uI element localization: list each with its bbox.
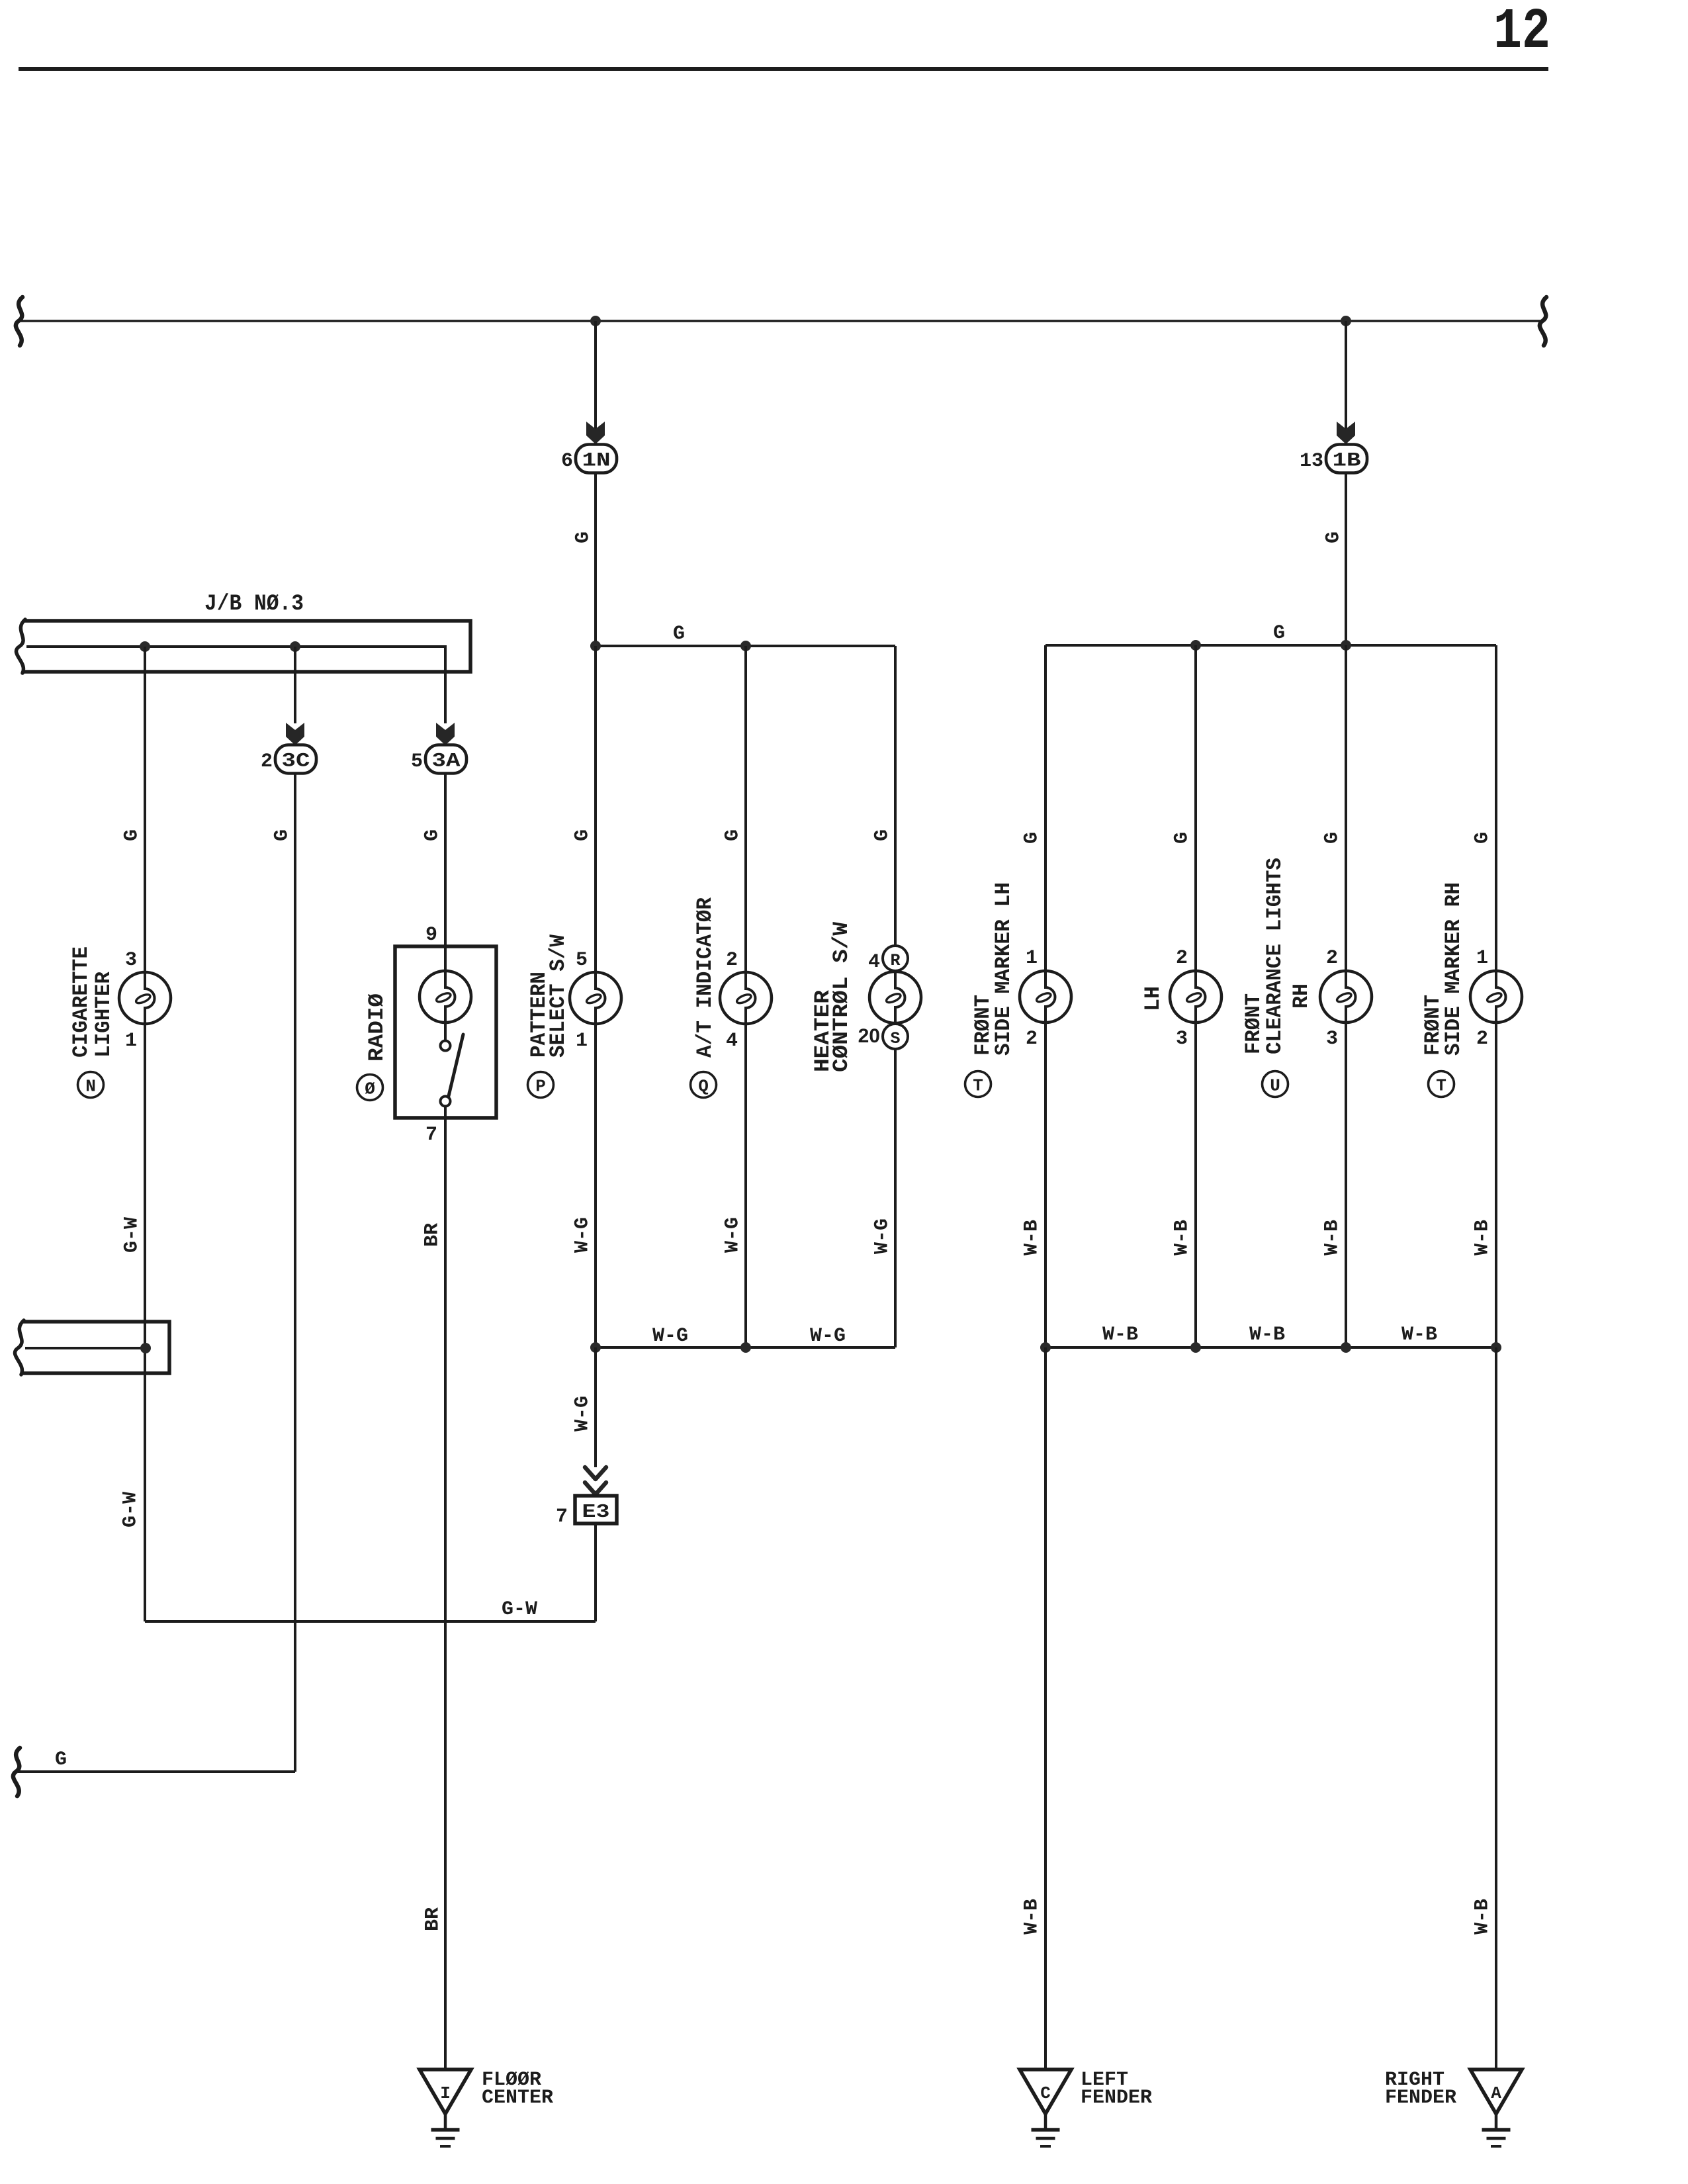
break symbol left end of bottom G wire [13,1748,20,1796]
svg-text:1B: 1B [1333,450,1361,473]
wire switch to radio box bottom [444,1107,447,1118]
wire W-B clearance LH to W-B bus [1194,1023,1197,1347]
svg-text:4: 4 [868,951,880,974]
svg-text:1N: 1N [582,450,611,473]
terminal R circle (heater) [883,946,908,971]
svg-text:W-B: W-B [1249,1324,1285,1346]
break symbol left edge of J/B NO.3 [17,619,25,673]
wire G-W from cigarette lighter [144,1024,146,1621]
component code Q [691,1072,717,1098]
wire W-B to left fender ground [1044,1347,1047,2070]
svg-text:R: R [890,951,900,970]
node junction W-B bus / marker RH wire [1491,1342,1501,1353]
svg-text:7: 7 [556,1506,568,1528]
svg-text:3C: 3C [282,751,310,773]
wire inside radio to lamp [444,946,447,972]
wire G clearance LH [1194,645,1197,972]
svg-text:G: G [1321,832,1343,844]
wire G to 3C [294,647,296,723]
node junction W-G bus / AT indicator wire [740,1342,751,1353]
svg-text:RADIØ: RADIØ [365,993,389,1062]
component code O [357,1075,383,1101]
svg-text:W-B: W-B [1471,1220,1493,1255]
svg-text:2: 2 [1176,947,1188,970]
wire G AT indicator [744,646,747,972]
svg-text:J/B NØ.3: J/B NØ.3 [204,592,304,617]
junction block J/B NO.3 box [24,621,470,672]
lamp front side marker RH [1470,971,1522,1023]
node junction right G bus / 1B drop [1341,640,1351,651]
svg-text:G-W: G-W [119,1492,142,1527]
lamp radio illumination [420,971,471,1023]
svg-text:W-G: W-G [871,1218,893,1254]
component code T (marker LH) [965,1071,991,1097]
svg-text:LH: LH [1141,986,1165,1011]
svg-text:W-G: W-G [652,1325,688,1347]
node junction right G bus / clearance LH wire [1190,640,1201,651]
wire G to 3A [444,672,447,723]
wire G from 3C down to bottom break [294,774,296,1772]
wire right G bus [1045,644,1496,647]
svg-text:RH: RH [1289,983,1313,1009]
svg-text:E3: E3 [582,1501,610,1523]
svg-text:1: 1 [576,1030,588,1052]
svg-text:CLEARANCE LIGHTS: CLEARANCE LIGHTS [1263,858,1287,1054]
wire G heater control [894,646,897,946]
wire G-W horizontal [145,1620,596,1623]
svg-text:T: T [973,1076,983,1096]
svg-text:G: G [673,623,685,645]
header rule [19,67,1548,71]
wire W-G bus [596,1346,895,1349]
node junction left G bus / AT indicator wire [740,641,751,651]
wire G pattern select [594,646,597,972]
svg-text:2: 2 [1026,1028,1038,1050]
lamp cigarette lighter illumination [119,972,171,1024]
break symbol right end of main bus [1540,297,1546,345]
wire bus bar inside J/B NO.3 [26,647,445,672]
svg-text:T: T [1436,1076,1446,1096]
svg-text:2: 2 [1476,1028,1488,1050]
wire G from 3A to radio [444,774,447,947]
svg-text:W-G: W-G [571,1217,594,1253]
wire G from 1B to right G bus [1345,473,1347,646]
wire G cigarette lighter [144,647,146,972]
svg-text:U: U [1270,1076,1280,1096]
component code T (marker RH) [1429,1071,1454,1097]
svg-text:G: G [871,829,893,841]
connector 1N [576,445,617,473]
svg-text:W-B: W-B [1020,1899,1043,1934]
svg-text:1: 1 [125,1030,137,1052]
svg-text:G: G [271,829,293,841]
svg-text:G: G [1020,832,1043,844]
svg-text:12: 12 [1493,0,1550,64]
ground right fender [1470,2070,1522,2146]
ground floor center [420,2070,471,2146]
connector 3C [275,745,316,774]
wire bus bar inside stub box [25,1347,146,1349]
svg-text:3: 3 [125,949,137,972]
svg-text:SIDE MARKER LH: SIDE MARKER LH [991,882,1016,1056]
svg-text:G: G [55,1749,67,1771]
wire W-B marker LH to W-B bus [1044,1023,1047,1347]
wire 1B drop [1345,321,1347,445]
lamp pattern select SW illumination [570,972,621,1024]
connector 1B [1326,445,1367,473]
node junction stub bus / cigarette lighter wire [140,1343,151,1353]
svg-text:G: G [421,829,443,841]
svg-text:G: G [571,829,594,841]
lamp front clearance LH [1170,971,1222,1023]
ground left fender [1020,2070,1071,2146]
svg-text:5: 5 [411,751,423,773]
wire W-B marker RH to W-B bus [1495,1023,1497,1347]
svg-text:G-W: G-W [502,1598,537,1621]
wire W-G pattern select to W-G bus [594,1024,597,1347]
svg-text:S: S [890,1029,900,1048]
break symbol left end of main bus [16,297,22,345]
wire W-G heater to W-G bus [894,1049,897,1347]
svg-text:G: G [1171,832,1193,844]
svg-text:A: A [1491,2083,1501,2103]
svg-text:C: C [1040,2083,1051,2103]
svg-text:G: G [1471,832,1493,844]
svg-text:P: P [535,1077,546,1097]
wire W-B bus [1045,1346,1496,1349]
connector arrow E3 [585,1467,606,1494]
svg-text:W-B: W-B [1171,1220,1193,1255]
svg-text:G: G [120,829,143,841]
connector arrow 1B [1337,422,1355,444]
svg-text:1: 1 [1026,947,1038,970]
svg-text:W-G: W-G [571,1396,594,1432]
svg-text:G: G [572,531,594,543]
node junction W-B bus / clearance RH wire [1341,1342,1351,1353]
svg-text:20: 20 [858,1025,880,1047]
switch contact lower (radio) [441,1097,451,1107]
node junction bus bar / 3C wire [290,641,300,652]
svg-text:CIGARETTE: CIGARETTE [69,946,93,1058]
svg-text:3: 3 [1176,1028,1188,1050]
svg-text:I: I [440,2083,451,2103]
svg-text:LIGHTER: LIGHTER [91,971,116,1058]
lamp heater control SW illumination [869,972,921,1023]
wire main G bus [21,320,1544,322]
wire left G bus [596,645,895,647]
component code U [1263,1071,1288,1097]
svg-text:13: 13 [1300,450,1323,473]
connector E3 [575,1496,617,1524]
node junction W-G bus / E3 drop [590,1342,601,1353]
svg-text:5: 5 [576,949,588,972]
lamp front clearance RH [1320,971,1372,1023]
wire W-G AT indicator to W-G bus [744,1024,747,1347]
node junction W-B bus / marker LH wire [1040,1342,1051,1353]
svg-text:2: 2 [261,751,273,773]
wire G bottom horizontal [18,1770,295,1773]
connector arrow 1N [586,422,605,444]
svg-text:FENDER: FENDER [1081,2087,1152,2109]
wire W-B to right fender ground [1495,1347,1497,2070]
lamp front side marker LH [1020,971,1071,1023]
junction block stub box [22,1322,169,1373]
connector arrow 3C [286,723,304,745]
svg-text:CØNTRØL S/W: CØNTRØL S/W [829,921,854,1072]
svg-text:4: 4 [726,1030,738,1052]
svg-text:3A: 3A [432,751,461,773]
svg-text:A/T INDICATØR: A/T INDICATØR [693,897,717,1058]
svg-text:2: 2 [1326,947,1338,970]
switch contact upper (radio) [441,1041,451,1051]
radio unit box [395,946,496,1118]
node junction left G bus / pattern select wire [590,641,601,651]
svg-text:SELECT S/W: SELECT S/W [546,934,570,1058]
svg-text:9: 9 [425,924,437,946]
wire BR from radio to ground [444,1118,447,2070]
wire W-G to E3 [594,1347,597,1467]
wire G clearance RH [1345,645,1347,972]
svg-text:G: G [1322,531,1345,543]
svg-text:G: G [721,829,744,841]
svg-text:BR: BR [422,1907,444,1931]
node junction main bus / 1N drop [590,316,601,326]
svg-text:FENDER: FENDER [1385,2087,1456,2109]
wire G from 1N to G bus [594,473,597,647]
lamp AT indicator illumination [720,972,772,1024]
svg-text:W-G: W-G [721,1217,744,1253]
component code P [528,1072,554,1098]
svg-text:BR: BR [421,1223,443,1247]
svg-text:1: 1 [1476,947,1488,970]
wire lamp to switch contact [444,1022,447,1040]
svg-text:7: 7 [425,1124,437,1146]
wire G front side marker RH [1495,645,1497,972]
component code N [78,1072,104,1098]
svg-text:Ø: Ø [365,1079,375,1099]
svg-text:SIDE MARKER RH: SIDE MARKER RH [1441,882,1466,1056]
svg-text:6: 6 [561,450,573,473]
node junction W-B bus / clearance LH wire [1190,1342,1201,1353]
svg-text:G-W: G-W [120,1217,143,1253]
svg-text:W-B: W-B [1102,1324,1138,1346]
svg-text:2: 2 [726,949,738,972]
terminal S circle (heater) [883,1024,908,1049]
node junction main bus / 1B drop [1341,316,1351,326]
wire W-B clearance RH to W-B bus [1345,1023,1347,1347]
wire E3 down to G-W corner [594,1524,597,1621]
svg-text:G: G [1273,622,1285,645]
wire G front side marker LH [1044,645,1047,972]
svg-text:W-B: W-B [1471,1899,1493,1934]
svg-text:W-B: W-B [1401,1324,1437,1346]
svg-text:W-G: W-G [810,1325,846,1347]
svg-text:CENTER: CENTER [482,2087,553,2109]
connector arrow 3A [436,723,455,745]
break symbol left edge of stub box [15,1320,24,1375]
svg-text:3: 3 [1326,1028,1338,1050]
svg-text:W-B: W-B [1321,1220,1343,1255]
svg-text:Q: Q [698,1077,709,1097]
svg-text:N: N [85,1077,96,1097]
node junction bus bar / cigarette lighter wire [140,641,150,652]
svg-text:W-B: W-B [1020,1220,1043,1255]
wire 1N drop [594,321,597,445]
switch blade (radio) [449,1034,463,1096]
connector 3A [425,745,466,774]
